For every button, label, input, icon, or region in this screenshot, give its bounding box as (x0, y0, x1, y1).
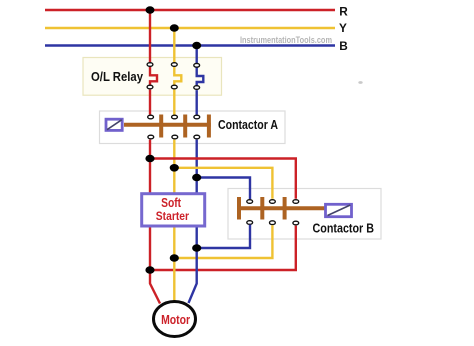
wire yellow soft starter to motor (173, 226, 175, 301)
junction dot blue below soft starter (192, 244, 201, 252)
junction dot red below soft starter (145, 266, 154, 274)
junction dot yellow above soft starter (170, 164, 179, 172)
motor M1 (154, 302, 196, 337)
cursor artifact smudge (358, 81, 362, 84)
wire yellow contactor B bottom return (174, 225, 272, 258)
wire yellow O/L relay to contactor A (173, 90, 175, 115)
contactor B contact bar pole 3 (283, 197, 287, 220)
wire red bypass to contactor B top (150, 159, 296, 199)
wire red drop from R bus to O/L relay (149, 10, 151, 62)
junction dot on B bus (192, 42, 201, 49)
svg-text:InstrumentationTools.com: InstrumentationTools.com (240, 35, 332, 45)
junction dot on Y bus (170, 24, 179, 31)
svg-text:Motor: Motor (161, 313, 190, 327)
wire blue drop from B bus to O/L relay (195, 46, 197, 64)
label R (339, 4, 348, 18)
junction dot red above soft starter (145, 155, 154, 163)
contactor B contact bar pole 1 (237, 197, 241, 220)
wire yellow contactor A to soft starter (173, 140, 175, 194)
junction dot yellow below soft starter (170, 254, 179, 262)
wire red O/L relay to contactor A (149, 90, 151, 115)
contactor A contact bar pole 1 (159, 115, 163, 138)
O/L Relay label (91, 70, 143, 84)
svg-text:Contactor B: Contactor B (313, 221, 375, 235)
contactor A contact terminal ellipses top row (148, 115, 200, 119)
svg-text:Contactor A: Contactor A (218, 117, 278, 132)
wire red contactor A to soft starter (149, 140, 151, 194)
wire blue soft starter to motor (189, 226, 197, 303)
contactor A coil (box with diagonal) (106, 119, 122, 130)
contactor B actuator bar (horizontal) (239, 206, 325, 210)
svg-text:O/L Relay: O/L Relay (91, 70, 143, 84)
O/L relay heater element red phase (147, 63, 157, 89)
bus line R (red phase) (45, 9, 335, 12)
Contactor B enclosure box (228, 189, 381, 240)
wire blue O/L relay to contactor A (195, 90, 197, 115)
Soft Starter label (156, 196, 190, 223)
label B (339, 39, 348, 53)
O/L relay heater element yellow phase (171, 63, 181, 89)
svg-text:B: B (339, 39, 348, 53)
contactor A actuator bar (horizontal) (124, 123, 211, 127)
wire yellow bypass to contactor B top (174, 168, 272, 199)
svg-text:Soft: Soft (161, 196, 182, 210)
wire yellow drop from Y bus to O/L relay (173, 28, 175, 62)
Contactor B label (313, 221, 375, 235)
svg-text:Starter: Starter (156, 210, 190, 223)
svg-text:Y: Y (339, 21, 347, 35)
wire red soft starter to motor (150, 226, 160, 304)
bus line Y (yellow phase) (45, 27, 335, 30)
contactor B contact bar pole 2 (260, 197, 264, 220)
contactor A contact bar pole 3 (207, 115, 211, 138)
Contactor A label (218, 117, 278, 132)
contactor A contact terminal ellipses bottom row (148, 135, 200, 139)
contactor B contact terminal ellipses top row (247, 200, 299, 204)
wire blue contactor A to soft starter (195, 140, 197, 194)
Contactor A enclosure box (100, 111, 286, 144)
O/L Relay enclosure box (83, 58, 222, 96)
soft starter box (142, 194, 205, 226)
contactor B coil (box with diagonal) (326, 204, 352, 216)
svg-text:R: R (339, 4, 348, 18)
label Y (339, 21, 347, 35)
wire blue contactor B bottom return (197, 225, 250, 248)
bus line B (blue phase) (45, 44, 335, 47)
wire blue bypass to contactor B top (197, 178, 250, 200)
O/L relay heater element blue phase (194, 63, 204, 89)
contactor A contact bar pole 2 (183, 115, 187, 138)
junction dot on R bus (146, 6, 155, 13)
watermark InstrumentationTools.com (240, 35, 332, 45)
wire red contactor B bottom return (150, 226, 296, 270)
junction dot blue above soft starter (192, 174, 201, 182)
contactor B contact terminal ellipses bottom row (247, 221, 299, 225)
